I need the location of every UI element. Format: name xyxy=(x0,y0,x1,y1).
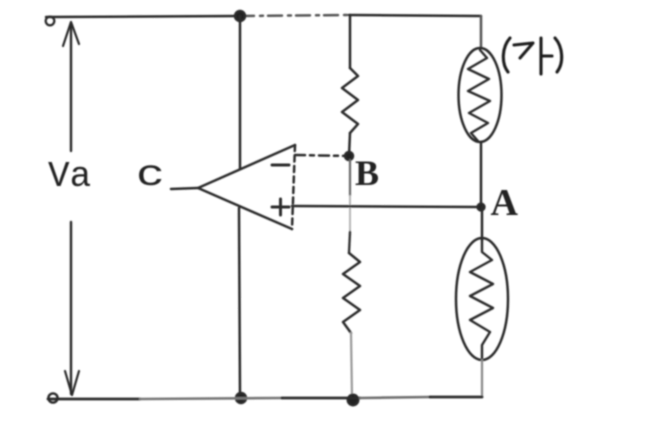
wire op-amp positive supply xyxy=(239,16,242,168)
resistor R2 xyxy=(343,253,360,333)
op-amp U1 triangle body xyxy=(198,145,295,229)
op-amp U1 xyxy=(198,145,295,229)
voltage arrow Va upper arrowhead xyxy=(63,22,79,46)
thermistor (가) upper: ellipse xyxy=(459,48,502,142)
junction bottom of supply wire xyxy=(236,393,246,403)
wire node A to thermistor 2 xyxy=(481,207,484,240)
svg-text:Va: Va xyxy=(48,156,91,197)
wire bottom rail segment 1 xyxy=(48,398,140,401)
wire bottom rail segment 2 (faded) xyxy=(140,398,282,399)
op-amp U1 inverting input pin symbol - xyxy=(272,164,289,167)
wire top rail right segment xyxy=(349,15,481,16)
label (가) left parenthesis xyxy=(503,38,510,72)
wire R2 to bottom rail xyxy=(351,333,352,397)
wire op-amp output xyxy=(171,188,198,189)
node A junction xyxy=(478,204,485,211)
wire node B down (upper part) xyxy=(349,160,351,196)
resistor R1 xyxy=(342,68,358,133)
wire thermistor 2 to bottom rail xyxy=(481,360,483,397)
wire noninverting input to node A xyxy=(292,206,481,207)
wire bottom rail segment 5 xyxy=(430,396,482,399)
thermistor lower: element zigzag xyxy=(470,240,493,358)
junction bottom rail at R2 xyxy=(348,395,358,405)
label (가) right parenthesis xyxy=(555,38,562,72)
wire top rail middle segment xyxy=(240,15,349,16)
svg-text:A: A xyxy=(491,182,519,224)
op-amp U1 right edge (dashed) xyxy=(292,145,295,229)
label (가) on thermistor 1 xyxy=(503,38,561,74)
svg-text:B: B xyxy=(355,153,379,193)
wire top rail corner down to thermistor 1 xyxy=(480,16,483,48)
wire top rail left segment xyxy=(46,16,240,17)
terminal bottom-left xyxy=(48,393,57,402)
wire node B down (faded middle, crosses + input wire) xyxy=(349,196,351,232)
thermistor lower: ellipse xyxy=(456,238,508,360)
wire down to R2 top xyxy=(349,232,350,253)
wire bottom rail segment 4 (faded) xyxy=(360,397,430,398)
label c xyxy=(136,154,165,196)
junction top of supply wire xyxy=(235,11,245,21)
voltage arrow Va lower arrowhead xyxy=(65,371,79,395)
svg-text:c: c xyxy=(136,154,165,196)
wire from top rail to R1 xyxy=(349,15,352,68)
label (가) vowel a stroke xyxy=(541,38,552,74)
node B xyxy=(345,152,353,160)
thermistor (가) upper: element zigzag xyxy=(468,50,490,141)
label (가) giyeok stroke xyxy=(514,43,533,58)
wire thermistor 1 to node A xyxy=(480,142,483,207)
op-amp U1 noninverting input pin symbol + xyxy=(272,199,289,215)
voltage arrow Va shaft xyxy=(70,23,72,394)
wire R1 to node B xyxy=(349,133,350,156)
wire inverting input to node B xyxy=(295,155,349,156)
wire bottom rail segment 3 xyxy=(282,397,360,400)
label A xyxy=(491,182,519,224)
label B xyxy=(355,153,379,193)
terminal top-left xyxy=(46,17,55,26)
wire op-amp negative supply xyxy=(239,208,240,397)
